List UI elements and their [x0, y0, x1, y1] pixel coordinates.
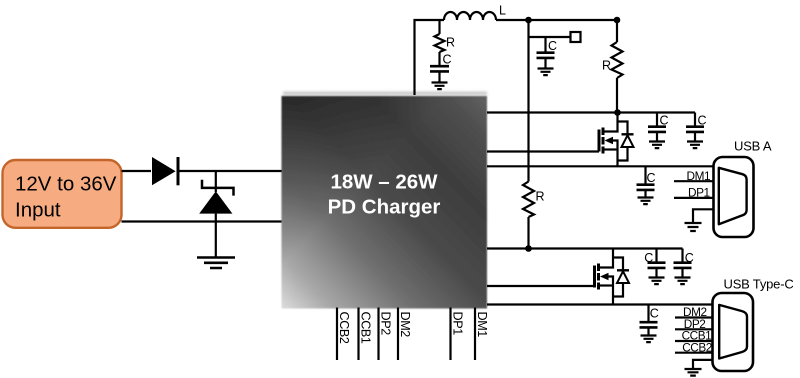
wire SW riser	[415, 20, 445, 95]
svg-text:R: R	[446, 36, 455, 50]
svg-text:C: C	[650, 307, 659, 321]
resistor R (mid)	[523, 182, 534, 218]
wire VIN+ after diode	[178, 170, 283, 172]
svg-text:C: C	[644, 251, 653, 265]
capacitor C (rail2 #1)	[644, 249, 665, 278]
diode D1	[152, 157, 178, 185]
node junction (R top)	[614, 17, 621, 24]
svg-text:USB A: USB A	[734, 139, 772, 154]
ground (rail2 cap2)	[675, 278, 691, 285]
wire VIN- bottom rail	[122, 220, 283, 222]
wire top rail to R	[496, 19, 617, 21]
svg-text:C: C	[660, 114, 669, 128]
ground (feedback cap)	[538, 69, 554, 76]
capacitor C (rail1 #2)	[686, 113, 707, 142]
resistor R (top right)	[602, 20, 623, 113]
ground (USB C shield)	[685, 369, 702, 376]
USB A connector	[714, 139, 772, 238]
svg-text:USB Type-C: USB Type-C	[724, 277, 794, 292]
svg-text:DM1: DM1	[475, 312, 489, 338]
capacitor C (snubber)	[430, 52, 452, 83]
svg-text:DM2: DM2	[398, 312, 412, 338]
svg-text:PD Charger: PD Charger	[328, 196, 441, 219]
wire mid vertical lower	[527, 217, 529, 249]
wire gate 2	[487, 285, 595, 287]
wire CCB1 stub	[675, 340, 713, 342]
wire USB A shield	[693, 209, 714, 222]
mosfet Q1	[599, 113, 618, 167]
wire DP2 stub	[675, 328, 713, 330]
svg-text:DP2: DP2	[379, 312, 393, 336]
svg-text:CCB2: CCB2	[337, 312, 351, 344]
svg-text:R: R	[602, 59, 611, 73]
svg-text:Input: Input	[15, 198, 61, 221]
node junction (drain 1)	[614, 109, 621, 116]
capacitor C (rail2 #2)	[674, 249, 694, 278]
pin CCB2	[337, 308, 351, 361]
wire CCB2 stub	[675, 352, 713, 354]
wire feedback branch	[529, 36, 571, 38]
svg-text:C: C	[548, 39, 557, 53]
svg-text:CCB1: CCB1	[359, 312, 373, 344]
ground (USB A shield)	[685, 223, 702, 231]
node junction (inductor output)	[525, 17, 532, 24]
svg-text:C: C	[685, 251, 694, 265]
wire VBUS1	[487, 165, 714, 167]
ground (VBUS1 cap)	[638, 198, 654, 205]
pin CCB1	[359, 308, 373, 361]
wire DM1 stub	[674, 180, 714, 182]
pin DP2	[379, 308, 393, 361]
IC U1 18W-26W PD Charger	[282, 92, 488, 309]
pin DP1	[451, 308, 465, 361]
mosfet Q2	[595, 249, 614, 305]
ground (VBUS2 cap)	[641, 336, 657, 343]
svg-text:CCB2: CCB2	[682, 340, 712, 354]
svg-text:12V to 36V: 12V to 36V	[15, 172, 117, 195]
node junction (drain 2)	[525, 245, 532, 252]
wire snubber branch	[438, 20, 440, 34]
svg-text:DM1: DM1	[687, 169, 711, 183]
svg-text:18W – 26W: 18W – 26W	[330, 171, 438, 194]
ground (rail2 cap1)	[649, 278, 665, 285]
resistor R (snubber)	[435, 34, 445, 52]
terminal square	[571, 32, 581, 42]
zener TVS diode D2	[199, 171, 233, 258]
input source block 12V to 36V	[3, 160, 122, 228]
inductor L	[444, 4, 506, 21]
pin DM1	[475, 308, 489, 361]
wire VIN+ top rail	[122, 170, 152, 172]
ground (snubber)	[432, 83, 448, 90]
ground (rail1 cap2)	[687, 142, 703, 149]
svg-text:C: C	[698, 114, 707, 128]
wire drain rail 2	[487, 247, 683, 249]
svg-text:L: L	[499, 4, 506, 18]
capacitor C (feedback)	[537, 37, 558, 69]
wire gate 1	[487, 150, 599, 152]
capacitor C (rail1 #1)	[648, 113, 669, 142]
body diode Q2	[613, 258, 629, 297]
pin DM2	[398, 308, 412, 361]
wire USB C shield	[693, 360, 713, 369]
svg-text:C: C	[647, 171, 656, 185]
ground (TVS)	[197, 258, 235, 269]
svg-text:R: R	[536, 190, 545, 204]
wire VBUS2	[487, 303, 714, 305]
svg-text:C: C	[443, 53, 452, 67]
wire drain rail 1	[487, 111, 695, 113]
capacitor C (VBUS2)	[640, 305, 659, 336]
USB Type-C connector	[713, 277, 794, 372]
body diode Q1	[618, 122, 634, 161]
svg-text:DP1: DP1	[688, 186, 710, 200]
capacitor C (VBUS1)	[637, 166, 656, 197]
ground (rail1 cap1)	[649, 142, 665, 149]
svg-text:DP1: DP1	[451, 312, 465, 336]
wire DM2 stub	[675, 316, 713, 318]
wire mid vertical (inductor node down)	[527, 20, 529, 182]
wire DP1 stub	[674, 197, 714, 199]
